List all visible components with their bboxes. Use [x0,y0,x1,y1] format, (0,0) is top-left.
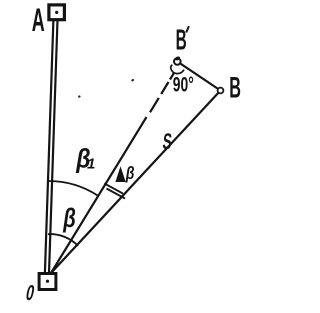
svg-text:β: β [62,203,76,234]
wire ray O to B' (dashed upper part) [150,73,174,112]
stray dot 1 [78,95,80,97]
wire segment B' to B [177,62,220,91]
node B' circle [174,58,181,65]
delta-beta double tick [104,183,125,198]
wire baseline O-A double line [45,20,58,273]
wire ray O to B' (solid lower part) [51,117,147,273]
node B circle [218,88,224,94]
svg-text:1: 1 [87,156,95,173]
label delta-beta [115,166,125,182]
svg-text:B: B [229,71,241,104]
wire ray O to B (distance S, solid) [51,91,221,274]
right-angle arc at B' [171,65,184,74]
station marker square at A [49,5,65,20]
stray dot 2 [131,78,135,82]
svg-text:β: β [125,163,135,183]
svg-text:90°: 90° [173,73,194,97]
station marker square at O [39,274,56,290]
svg-text:A: A [32,4,45,39]
arc beta [48,234,78,246]
arc beta1 [48,181,98,195]
svg-text:B: B [176,23,187,55]
ink blob on B' circle top [174,56,180,61]
